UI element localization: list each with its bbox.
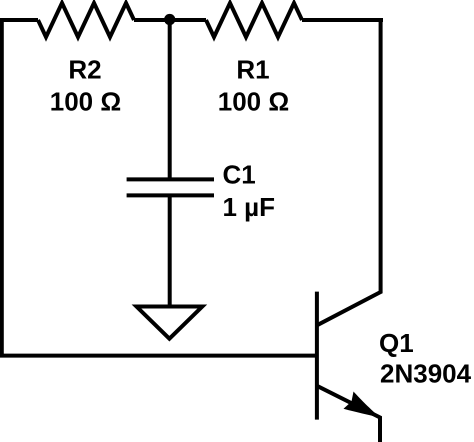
svg-text:100 Ω: 100 Ω xyxy=(218,87,289,117)
svg-text:2N3904: 2N3904 xyxy=(380,359,472,389)
wire top-left xyxy=(0,18,38,22)
wire top-middle xyxy=(134,18,206,22)
svg-text:R1: R1 xyxy=(236,55,269,85)
node junction dot xyxy=(164,14,175,25)
svg-text:1 µF: 1 µF xyxy=(223,192,276,222)
transistor Q1 base bar xyxy=(315,292,319,420)
transistor Q1 emitter wire xyxy=(317,386,380,442)
wire base (bottom) xyxy=(0,354,317,358)
ground xyxy=(137,307,203,339)
svg-text:Q1: Q1 xyxy=(379,328,414,358)
svg-text:100 Ω: 100 Ω xyxy=(50,87,121,117)
transistor Q1 emitter arrowhead xyxy=(344,392,381,418)
svg-text:R2: R2 xyxy=(68,55,101,85)
resistor R2 xyxy=(38,3,134,37)
capacitor C1 bottom lead xyxy=(168,195,172,306)
capacitor C1 top lead xyxy=(168,18,172,179)
svg-text:C1: C1 xyxy=(223,160,256,190)
wire left side xyxy=(0,18,4,357)
wire top-right xyxy=(302,18,383,22)
capacitor C1 plates xyxy=(127,179,214,195)
wire right side and collector diagonal xyxy=(317,18,381,325)
resistor R1 xyxy=(206,3,302,37)
